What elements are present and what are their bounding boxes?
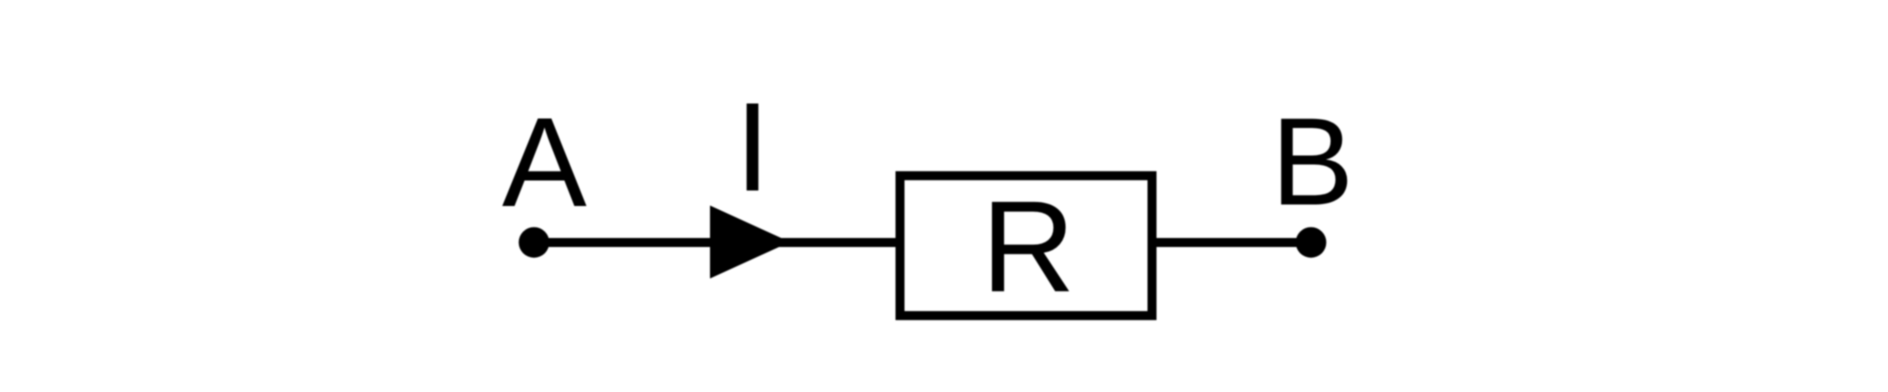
wire resistor to B — [1150, 238, 1311, 247]
wire A to resistor — [534, 238, 902, 247]
svg-text:I: I — [735, 77, 770, 218]
node A — [519, 227, 550, 258]
current arrow I — [710, 206, 790, 279]
node B — [1296, 227, 1327, 258]
svg-text:A: A — [502, 91, 587, 233]
svg-text:R: R — [981, 173, 1075, 319]
svg-text:B: B — [1271, 94, 1354, 232]
resistor R — [900, 176, 1152, 316]
